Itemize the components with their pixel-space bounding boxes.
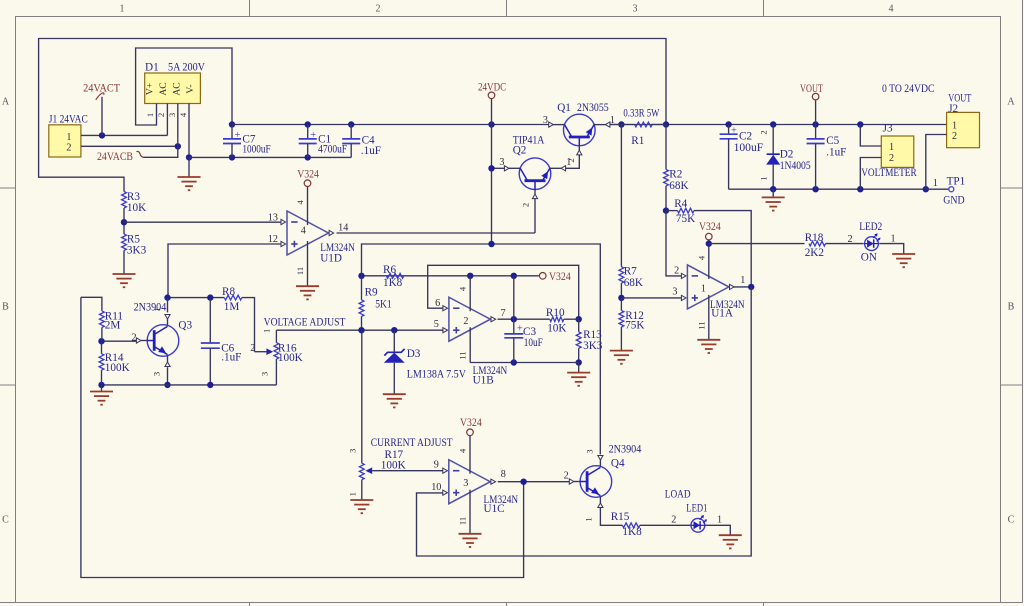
svg-text:0 TO 24VDC: 0 TO 24VDC [882,83,935,95]
op-amp U1A [672,265,745,320]
wire D1 pin2 stub [166,104,168,136]
svg-text:1: 1 [952,120,957,131]
svg-text:LED1: LED1 [686,503,707,515]
wire main 24VDC rail [232,121,947,127]
svg-text:R1: R1 [631,135,644,147]
svg-text:2N3904: 2N3904 [609,444,642,456]
wire J1 pin1 to D1 pin2 [81,132,167,138]
svg-text:3: 3 [260,372,270,376]
wire J3 pin2 to ground rail [860,158,881,190]
ground at Q3 rail [90,385,113,405]
potentiometer R17 CURRENT ADJUST [347,437,452,500]
svg-text:10: 10 [431,482,441,493]
svg-text:.1uF: .1uF [221,352,241,364]
power port V324 at U1D [295,169,319,225]
svg-text:LOAD: LOAD [665,488,691,500]
capacitor C4 [342,125,381,158]
transistor Q1 2N3055 [543,102,615,163]
svg-text:2: 2 [66,143,71,154]
svg-text:3: 3 [347,449,357,453]
transistor Q4 2N3904 [564,444,642,522]
svg-text:7: 7 [501,308,506,319]
resistor R6 [383,264,404,289]
svg-text:B: B [1008,302,1015,313]
resistor R15 [611,511,691,538]
power port V324 at U1A [696,221,721,279]
svg-text:TP1: TP1 [947,176,966,188]
svg-text:4: 4 [696,255,706,260]
svg-text:11: 11 [696,321,706,329]
svg-text:A: A [2,97,10,108]
resistor R11 [81,297,123,341]
ground at U1C [459,534,482,547]
wire U1A output to U1C pin10 loop [417,287,752,556]
ground at D2 [762,189,785,210]
svg-text:U1C: U1C [484,503,505,515]
svg-text:75K: 75K [625,319,644,331]
svg-text:9: 9 [434,459,439,470]
ground at LED2 [892,254,915,267]
svg-text:.1uF: .1uF [826,147,846,159]
svg-text:LM138A 7.5V: LM138A 7.5V [407,369,466,381]
wire D1 pin3 stub [177,104,179,147]
svg-text:AC: AC [172,82,183,95]
svg-text:1: 1 [120,4,125,15]
svg-text:R6: R6 [383,264,396,276]
capacitor C3 [504,319,543,362]
wire R7 node to U1A pin3 [621,297,681,299]
svg-text:3: 3 [672,287,677,298]
svg-text:U1D: U1D [320,253,342,265]
wire R11 node to Q3 base [98,338,136,344]
resistor R3 [122,191,147,234]
wire VADJ riser to R17 [361,330,363,463]
wire U1D pin14 output [337,232,536,234]
ground at R5 [113,274,136,287]
connector J1 [49,113,88,157]
svg-text:VOLTAGE ADJUST: VOLTAGE ADJUST [264,316,346,328]
svg-text:D2: D2 [780,148,794,160]
svg-text:3: 3 [585,449,595,453]
svg-text:VOUT: VOUT [800,83,823,95]
transistor Q2 TIP41A [499,135,571,208]
svg-text:2K2: 2K2 [805,247,824,259]
svg-text:24VACT: 24VACT [83,82,120,94]
svg-text:1: 1 [891,234,896,245]
power port V324 at U1C [458,417,482,474]
svg-text:B: B [2,302,9,313]
capacitor C6 [201,298,242,385]
bridge rectifier D1 [145,62,206,118]
svg-text:4: 4 [889,4,894,15]
svg-text:GND: GND [943,195,964,207]
svg-text:.1uF: .1uF [361,145,381,157]
resistor R12 [619,298,644,350]
ground at D3 [383,394,406,407]
svg-text:4: 4 [295,199,305,204]
svg-text:+: + [310,130,316,141]
wire Q1 emitter pin2 to Q2 pin1 [565,155,579,168]
resistor R2 [663,125,689,214]
svg-text:100K: 100K [278,352,303,364]
resistor R18 [805,232,864,259]
wire U1D pin11 to ground [295,241,308,286]
svg-text:U1A: U1A [711,308,733,320]
svg-text:LED2: LED2 [859,221,882,233]
svg-text:Q4: Q4 [611,458,625,470]
svg-text:1: 1 [740,275,745,286]
svg-text:4: 4 [301,226,306,237]
svg-text:11: 11 [458,517,468,525]
svg-text:4: 4 [458,286,468,291]
wire J1 pin2 to D1 pin3 [81,143,181,149]
svg-text:R4: R4 [674,198,687,210]
power port 24VDC [478,82,506,245]
wire U1A pin11 to ground [696,295,709,339]
svg-text:2: 2 [671,514,676,525]
svg-text:Q2: Q2 [513,145,527,157]
svg-text:2: 2 [759,130,769,134]
capacitor C5 [807,125,847,190]
svg-text:4700uF: 4700uF [318,143,347,155]
svg-text:3K3: 3K3 [583,340,603,352]
svg-text:J3: J3 [883,123,893,135]
svg-text:1: 1 [933,178,938,189]
svg-text:V-: V- [185,84,196,93]
svg-text:J2: J2 [948,103,958,115]
svg-text:J1 24VAC: J1 24VAC [49,113,88,125]
svg-text:D3: D3 [407,348,421,360]
ground at R17 [350,500,373,513]
wire J2 pin2 riser [926,135,947,190]
svg-text:3: 3 [499,157,504,168]
svg-text:1: 1 [889,142,894,153]
svg-text:4: 4 [458,448,468,453]
net label 24VACB [97,146,178,163]
svg-text:R8: R8 [222,286,235,298]
svg-text:+: + [517,324,523,335]
connector J3 VOLTMETER [861,123,917,180]
svg-text:Q1: Q1 [557,102,571,114]
svg-text:R9: R9 [365,286,378,298]
resistor R10 [546,307,579,335]
ground at R12 [610,351,633,364]
svg-text:R15: R15 [611,511,630,523]
svg-text:3: 3 [633,4,638,15]
wire U1B output riser to V324 [513,276,515,319]
wire 24VDC to Q2 base [488,165,504,171]
svg-text:3: 3 [167,113,177,117]
svg-text:R7: R7 [624,266,637,278]
label 0 TO 24VDC [882,83,935,95]
power port V324 at U1B output [539,271,571,283]
LED1 [686,503,722,533]
wire R2 node to U1A pin2 [666,211,681,276]
svg-text:100uF: 100uF [734,142,764,154]
svg-text:AC: AC [158,82,169,95]
ground at U1D [296,286,319,299]
capacitor C1 [299,125,347,158]
svg-text:1: 1 [347,492,357,496]
svg-text:V324: V324 [460,417,482,429]
svg-text:3: 3 [152,372,162,376]
svg-text:VOLTMETER: VOLTMETER [861,167,917,179]
svg-text:11: 11 [295,267,305,275]
wire VOLTAGE ADJUST net [264,316,444,333]
svg-text:2: 2 [156,113,166,117]
svg-text:2N3055: 2N3055 [577,102,609,114]
svg-text:2: 2 [848,234,853,245]
svg-text:3: 3 [543,115,548,126]
svg-text:1: 1 [701,283,706,294]
svg-text:1: 1 [152,307,162,311]
op-amp U1C [431,459,518,515]
wire U1C pin11 to ground [458,490,471,534]
svg-text:1: 1 [566,157,571,168]
test point TP1 [926,176,965,207]
resistor R8 [222,286,242,313]
wire U1D pin12 feedback riser [168,244,281,298]
resistor R9 [359,276,392,330]
svg-text:10K: 10K [127,202,146,214]
resistor R7 [618,125,643,302]
svg-text:10K: 10K [547,323,566,335]
zener diode D3 LM138A [384,330,466,394]
wire V324 node to R18 [709,243,805,245]
wire Q4 emitter to R15 [600,508,622,526]
svg-text:C: C [1008,515,1015,526]
svg-text:1: 1 [262,329,272,333]
svg-text:1: 1 [717,514,722,525]
resistor R13 [576,319,603,365]
svg-text:5A 200V: 5A 200V [168,62,205,74]
wire U1A output node [734,284,755,290]
svg-text:2: 2 [520,203,530,207]
svg-text:68K: 68K [624,277,643,289]
wire output ground rail [729,186,929,192]
wire U1B pin6 feedback box [428,265,582,322]
svg-text:3K3: 3K3 [127,244,147,256]
connector J2 VOUT [947,92,980,147]
svg-text:2: 2 [564,471,569,482]
capacitor C7 [223,125,271,158]
wire U1C output to Q4 base [498,479,570,485]
svg-text:U1B: U1B [473,374,494,386]
svg-text:CURRENT ADJUST: CURRENT ADJUST [371,437,453,449]
svg-text:2: 2 [463,316,468,327]
node R3-R5 divider [121,219,127,225]
wire U1B output [498,316,550,322]
wire ground rail under filter caps [189,154,351,160]
svg-text:100K: 100K [105,362,130,374]
wire Q2 collector drop [534,199,536,234]
resistor R4 [666,198,751,287]
svg-text:100K: 100K [381,459,406,471]
ground at R13 [567,363,590,386]
svg-text:V324: V324 [549,271,571,283]
svg-text:C2: C2 [739,131,752,143]
op-amp U1B [434,297,507,386]
transistor Q3 2N3904 [132,302,193,376]
wire bottom ground rail left [98,382,276,388]
LED2 [859,221,895,263]
svg-text:1N4005: 1N4005 [780,160,811,172]
svg-text:5: 5 [434,319,439,330]
wire V324 reference rail [358,273,539,279]
svg-text:R2: R2 [669,169,682,181]
wire R8 node to R16 wiper [242,298,255,352]
svg-text:2M: 2M [105,320,121,332]
svg-text:A: A [1007,97,1015,108]
op-amp U1D [268,211,355,265]
svg-text:11: 11 [458,351,468,359]
wire R6 node riser to Q4 collector net [362,241,601,455]
power port VOUT [800,83,823,125]
wire LED2 to ground [879,244,903,254]
wire D1 V- to ground rail [186,104,192,161]
svg-text:0.33R 5W: 0.33R 5W [623,107,659,119]
svg-text:1: 1 [66,132,71,143]
svg-text:1: 1 [584,517,594,521]
ground at U1A [697,340,720,353]
wire J3 pin1 to rail [860,125,881,147]
ground at D1 V- [178,157,201,190]
svg-text:68K: 68K [669,180,688,192]
svg-text:24VACB: 24VACB [97,151,133,163]
capacitor C2 [720,125,764,190]
svg-text:5K1: 5K1 [375,298,391,310]
svg-text:+: + [235,130,241,141]
svg-text:C5: C5 [826,135,839,147]
resistor R5 [122,234,147,274]
svg-text:2: 2 [376,4,381,15]
svg-text:V+: V+ [145,83,156,95]
wire D1 V+ loop to filter rail [136,48,236,128]
wire U1B pin4 stem [458,276,471,311]
svg-text:1M: 1M [224,301,240,313]
resistor R14 [99,341,130,385]
label LOAD [665,488,691,500]
svg-text:1: 1 [759,176,769,180]
svg-text:8: 8 [501,469,506,480]
svg-text:ON: ON [861,252,877,264]
wire LED1 to ground [705,525,731,535]
wire R3 node to U1D pin13 [124,221,281,223]
wire Q3 collector rail [164,294,224,312]
svg-text:Q3: Q3 [178,319,192,331]
wire U1B pin11 rail [458,327,579,365]
svg-text:2: 2 [889,153,894,164]
svg-text:R10: R10 [546,307,565,319]
svg-text:10uF: 10uF [524,337,543,349]
svg-text:14: 14 [338,222,348,233]
svg-text:1: 1 [145,113,155,117]
svg-text:R18: R18 [805,232,824,244]
svg-text:2: 2 [674,265,679,276]
diode D2 1N4005 [759,125,811,190]
svg-text:V324: V324 [699,221,721,233]
svg-text:4: 4 [178,112,188,117]
svg-text:1K8: 1K8 [383,277,403,289]
svg-text:1000uF: 1000uF [242,143,270,155]
potentiometer R16 VOLTAGE ADJUST [250,329,303,385]
wire output sense loop [39,39,666,192]
svg-text:C: C [2,515,9,526]
svg-text:1K8: 1K8 [622,526,642,538]
svg-text:+: + [731,126,737,137]
wire U1C output loop to R11 [81,297,524,577]
resistor R1 [610,107,666,147]
net label 24VACT [83,82,120,135]
svg-text:75K: 75K [676,213,695,225]
wire Q3 emitter to rail [164,367,170,388]
ground at LED1 [719,535,742,548]
svg-text:V324: V324 [297,169,319,181]
svg-text:2: 2 [952,131,957,142]
svg-text:D1: D1 [145,62,159,74]
svg-text:3: 3 [463,478,468,489]
svg-text:6: 6 [435,298,440,309]
